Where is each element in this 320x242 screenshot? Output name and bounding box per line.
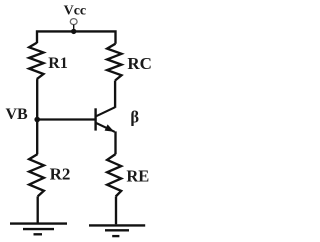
wire emitter (transistor to RE top) [114, 131, 116, 154]
wire RE to ground [115, 197, 117, 225]
svg-text:VB: VB [6, 106, 29, 123]
svg-text:RE: RE [126, 167, 149, 186]
junction dot at Vcc node [71, 29, 76, 34]
svg-text:RC: RC [127, 54, 152, 73]
svg-text:R1: R1 [48, 55, 68, 72]
node VB junction dot [34, 117, 40, 123]
wire left rail (R1 bottom to R2 top) [36, 79, 38, 154]
ground (right, under RE) [89, 225, 145, 236]
svg-text:R2: R2 [50, 164, 71, 183]
wire Vcc stem [73, 25, 75, 32]
Vcc terminal [70, 19, 77, 25]
ground (left, under R2) [10, 224, 67, 235]
svg-text:β: β [130, 108, 139, 127]
resistor R2 [29, 154, 44, 196]
resistor RE [107, 154, 121, 196]
svg-text:Vcc: Vcc [64, 4, 87, 19]
wire top rail [37, 31, 116, 43]
resistor R1 [29, 43, 43, 80]
wire collector (RC bottom to transistor) [114, 81, 116, 108]
resistor RC [107, 44, 121, 81]
transistor Q1 (NPN) [96, 107, 116, 132]
wire base [37, 118, 94, 120]
wire R2 to ground [37, 196, 39, 222]
